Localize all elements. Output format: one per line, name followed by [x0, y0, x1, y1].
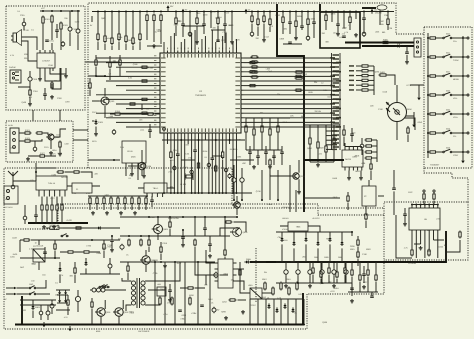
label L903	[302, 256, 306, 259]
main board border top	[88, 3, 424, 168]
resistor R71	[379, 71, 388, 76]
junction	[201, 192, 203, 194]
svg-text:D439: D439	[13, 253, 18, 256]
wire	[169, 284, 171, 298]
wire	[51, 212, 53, 225]
wire	[97, 42, 99, 51]
label 1N4148	[37, 244, 44, 247]
resistor R82	[89, 82, 91, 90]
ground	[332, 284, 336, 288]
label D969	[236, 138, 241, 141]
wire	[180, 136, 182, 194]
wire	[103, 205, 105, 210]
wire	[104, 88, 106, 96]
junction	[321, 282, 323, 284]
wire	[59, 149, 61, 153]
label R628	[326, 238, 331, 241]
svg-text:D146: D146	[383, 91, 388, 94]
pin bottom 2	[170, 128, 171, 135]
capacitor C26 electrolytic	[173, 165, 176, 171]
resistor R61	[333, 137, 335, 146]
terminal	[433, 190, 435, 192]
wire	[132, 12, 134, 39]
wire	[119, 55, 121, 76]
wire	[244, 80, 337, 82]
svg-text:680: 680	[70, 275, 73, 278]
svg-text:103: 103	[31, 279, 34, 282]
resistor R73	[343, 129, 345, 137]
label AN1	[446, 52, 451, 55]
capacitor C74 electrolytic	[240, 177, 244, 184]
wire	[77, 11, 79, 50]
label Q613	[302, 73, 307, 76]
power isolation dashed line	[255, 248, 257, 302]
transistor Q1	[46, 134, 60, 140]
resistor R62	[269, 159, 271, 167]
wire	[356, 79, 361, 81]
label 10U	[333, 32, 337, 35]
junction	[197, 261, 199, 263]
pin right 3	[235, 71, 243, 72]
wire	[310, 161, 334, 163]
pin left 6	[154, 83, 166, 86]
junction	[215, 192, 217, 194]
junction	[111, 235, 113, 237]
label R613	[130, 312, 135, 315]
resistor R32	[387, 18, 389, 27]
resistor R56	[269, 128, 271, 137]
pin (ladder)	[333, 146, 340, 147]
pin	[361, 147, 363, 151]
junction	[462, 132, 464, 134]
resistor R131	[288, 287, 290, 296]
label D246	[438, 246, 443, 249]
wire	[244, 108, 337, 110]
wire	[462, 36, 464, 158]
wire	[244, 112, 331, 114]
pin	[44, 68, 46, 71]
svg-text:100U: 100U	[311, 18, 316, 21]
main border right staircase + IF strip	[4, 168, 468, 229]
svg-text:472: 472	[328, 280, 331, 283]
junction	[91, 239, 93, 241]
svg-text:220: 220	[322, 32, 325, 35]
pin bottom 7	[188, 128, 189, 135]
svg-text:D907: D907	[314, 256, 319, 259]
wire	[67, 185, 100, 187]
IC U8 EEPROM 24C08	[342, 150, 363, 167]
ground	[42, 322, 46, 327]
pin (ladder)	[333, 58, 340, 59]
pin	[151, 193, 153, 197]
wire	[304, 159, 344, 161]
label C518	[48, 64, 53, 67]
wire	[195, 262, 210, 275]
junction	[427, 94, 429, 96]
wire	[349, 24, 351, 30]
label 330	[315, 110, 318, 113]
terminal	[467, 75, 469, 77]
resistor R24	[257, 18, 259, 27]
junction	[194, 216, 196, 218]
svg-text:PC817: PC817	[250, 304, 256, 307]
ground	[241, 310, 245, 314]
junction	[197, 324, 199, 326]
wire	[126, 126, 158, 128]
svg-text:REM: REM	[407, 108, 412, 111]
junction	[427, 56, 429, 58]
label 220	[24, 57, 27, 60]
wire	[261, 118, 263, 126]
wire	[404, 208, 406, 222]
wire	[249, 146, 251, 165]
label Q373	[221, 39, 226, 42]
label 1K	[121, 313, 124, 316]
wire	[301, 12, 303, 27]
resistor R96	[138, 197, 140, 206]
svg-text:Q304: Q304	[320, 282, 325, 285]
resistor R23	[251, 15, 253, 24]
label D542	[230, 148, 235, 151]
svg-text:D433: D433	[12, 237, 17, 240]
label 100U	[52, 149, 57, 152]
label 100/16V	[282, 217, 289, 220]
svg-text:C113: C113	[264, 35, 268, 38]
wire	[253, 137, 255, 151]
svg-text:C790: C790	[86, 244, 91, 247]
svg-text:C542: C542	[268, 70, 273, 73]
junction	[211, 192, 213, 194]
wire	[356, 70, 361, 72]
wire	[36, 168, 92, 178]
svg-text:R653: R653	[355, 170, 360, 173]
wire	[39, 240, 60, 270]
wire	[244, 121, 331, 123]
pin right 5	[235, 81, 243, 82]
label 4.7K	[10, 54, 15, 57]
pin	[344, 147, 346, 151]
power flag 12V	[370, 9, 378, 14]
wire	[56, 290, 70, 310]
wire	[289, 165, 291, 212]
wire	[139, 42, 141, 51]
capacitor C20	[288, 42, 292, 43]
wire	[109, 289, 126, 291]
wire	[191, 33, 193, 51]
label VCC	[41, 7, 46, 10]
wire	[204, 36, 206, 51]
label R527	[157, 30, 162, 33]
label R922	[366, 248, 371, 251]
junction	[95, 75, 97, 77]
connector J1 AV	[8, 124, 19, 153]
junction	[180, 192, 182, 194]
junction	[118, 11, 120, 13]
wire	[50, 140, 52, 149]
label R908 1K/2W	[168, 217, 179, 220]
resistor R97	[145, 197, 147, 206]
ground	[94, 132, 98, 136]
wire	[51, 197, 53, 206]
label D213	[222, 300, 227, 303]
wire	[177, 155, 179, 193]
wire	[22, 37, 38, 50]
pin top	[415, 205, 417, 209]
label 680	[54, 80, 57, 83]
wire	[124, 196, 126, 198]
resistor R55	[261, 125, 263, 134]
label 2W	[226, 12, 229, 15]
svg-text:103: 103	[197, 12, 200, 15]
wire	[125, 12, 127, 37]
capacitor C33	[272, 156, 276, 157]
label 22K	[314, 81, 318, 84]
svg-text:R613: R613	[130, 312, 135, 315]
capacitor C7	[181, 24, 185, 25]
junction	[303, 57, 305, 59]
wire	[289, 12, 291, 23]
capacitor C36	[392, 188, 396, 189]
label 22/50V	[282, 239, 288, 242]
label R447	[177, 262, 182, 265]
label L568	[361, 162, 365, 165]
svg-text:L568: L568	[361, 162, 365, 165]
resistor R88	[147, 113, 155, 115]
wire	[35, 163, 37, 181]
wire	[239, 262, 241, 285]
svg-text:2W: 2W	[264, 271, 267, 274]
svg-text:C113: C113	[92, 111, 96, 114]
wire	[331, 12, 333, 23]
junction	[54, 257, 56, 259]
junction	[257, 11, 259, 13]
svg-text:2W: 2W	[226, 12, 229, 15]
AV jack section border	[6, 121, 73, 162]
label C113	[264, 35, 268, 38]
junction	[146, 11, 148, 13]
junction	[235, 192, 237, 194]
capacitor C72	[43, 94, 47, 95]
wire	[23, 18, 25, 30]
bottom staircase border	[4, 215, 384, 329]
svg-text:D891: D891	[352, 156, 357, 159]
junction	[351, 231, 353, 233]
resistor R115	[74, 267, 76, 275]
label R471	[51, 153, 56, 156]
svg-text:D213: D213	[222, 300, 227, 303]
wire	[110, 196, 112, 198]
wire	[326, 130, 332, 132]
resistor R85	[119, 59, 121, 67]
label C318	[33, 90, 38, 93]
wire	[326, 139, 332, 141]
label 10U	[56, 133, 60, 136]
wire	[345, 143, 362, 147]
junction	[343, 11, 345, 13]
resistor R72	[407, 127, 409, 135]
capacitor C40 electrolytic	[112, 129, 116, 135]
label 103	[204, 283, 207, 286]
svg-text:470/16V: 470/16V	[282, 228, 289, 231]
svg-text:+5.0V: +5.0V	[66, 219, 72, 222]
junction	[225, 192, 227, 194]
label 0.1	[205, 156, 208, 159]
pin	[215, 280, 219, 282]
svg-text:L586: L586	[109, 115, 113, 118]
resistor R42	[170, 151, 172, 160]
label AN2	[446, 33, 451, 36]
wire	[153, 22, 155, 42]
wire	[18, 71, 30, 87]
wire	[301, 27, 303, 30]
resistor R60	[325, 145, 327, 154]
pin right 9	[235, 99, 243, 100]
resistor R64	[370, 163, 372, 171]
pin (ladder)	[333, 106, 340, 107]
ground	[224, 316, 228, 320]
wire	[96, 57, 158, 59]
label 22K	[427, 229, 431, 232]
pin bottom	[424, 230, 426, 234]
capacitor C8	[202, 24, 206, 25]
label R496	[332, 177, 337, 180]
label C121	[44, 146, 49, 149]
switch S3	[98, 285, 106, 288]
capacitor C42	[34, 215, 38, 216]
power section top border	[58, 207, 384, 209]
label D976	[333, 196, 338, 199]
wire	[77, 290, 79, 312]
label 100	[352, 132, 355, 135]
label D284	[282, 27, 287, 30]
wire	[41, 197, 43, 206]
module U5 (video block)	[122, 141, 146, 163]
resistor R111	[357, 239, 359, 247]
svg-text:R496: R496	[332, 177, 337, 180]
wire	[270, 168, 293, 176]
junction	[182, 11, 184, 13]
wire	[111, 236, 113, 248]
wire	[320, 279, 322, 283]
resistor R80	[429, 132, 438, 134]
ground	[284, 284, 288, 288]
wire	[325, 12, 327, 16]
wire	[370, 84, 375, 86]
wire	[89, 205, 91, 210]
svg-text:103: 103	[139, 118, 142, 121]
svg-text:C342: C342	[282, 121, 287, 124]
label 10K	[381, 23, 385, 26]
label R522	[153, 259, 158, 262]
label 472	[29, 96, 32, 99]
svg-text:220: 220	[370, 104, 373, 107]
svg-text:C774: C774	[102, 247, 107, 250]
wire	[257, 150, 259, 165]
wire	[96, 75, 158, 77]
capacitor C59	[168, 290, 172, 291]
wire	[317, 125, 319, 142]
wire	[211, 159, 213, 193]
svg-text:C365: C365	[149, 67, 154, 70]
svg-text:R922: R922	[366, 248, 371, 251]
pin bottom 14	[212, 128, 213, 135]
label DEG	[20, 266, 25, 269]
wire	[154, 262, 156, 325]
wire	[387, 26, 389, 30]
wire	[85, 61, 120, 63]
capacitor C41	[150, 200, 154, 201]
optocoupler U901 PC817	[248, 284, 262, 299]
capacitor C60	[403, 214, 407, 215]
wire	[373, 157, 377, 159]
wire	[222, 136, 224, 153]
junction	[209, 324, 211, 326]
wire	[297, 262, 299, 283]
svg-text:L623: L623	[266, 67, 270, 70]
wire	[464, 113, 467, 115]
capacitor C29 electrolytic	[224, 167, 227, 173]
svg-text:472: 472	[270, 25, 273, 28]
junction	[377, 42, 379, 44]
wire	[88, 195, 148, 197]
pin (ladder)	[333, 98, 340, 99]
label Q758	[256, 190, 261, 193]
wire	[147, 45, 162, 47]
capacitor C45 electrolytic	[46, 310, 50, 316]
capacitor C15 electrolytic	[188, 31, 192, 37]
wire	[362, 45, 414, 47]
pin	[38, 190, 40, 197]
pin	[52, 68, 54, 71]
resistor R103	[56, 204, 58, 212]
ground	[168, 298, 172, 302]
ceramic filter Z2	[362, 186, 376, 206]
label R184	[203, 150, 208, 153]
label D935	[308, 91, 313, 94]
wire	[104, 106, 106, 118]
label 220	[95, 172, 98, 175]
svg-text:22/50V: 22/50V	[282, 239, 288, 242]
ground	[417, 95, 421, 100]
capacitor C17 electrolytic	[306, 35, 310, 41]
junction	[218, 192, 220, 194]
capacitor C3	[45, 39, 55, 42]
capacitor C55	[350, 288, 354, 289]
resistor R8	[59, 141, 61, 149]
wire	[344, 275, 346, 283]
wire	[201, 39, 203, 51]
resistor R132	[296, 282, 298, 291]
wire	[42, 25, 44, 51]
wire	[295, 12, 297, 22]
capacitor C16 electrolytic	[250, 31, 254, 37]
svg-text:R131: R131	[92, 140, 97, 143]
pin top 13	[208, 48, 209, 58]
wire	[285, 262, 287, 283]
capacitor C4 electrolytic	[61, 41, 65, 47]
wire	[120, 261, 215, 263]
label C700	[203, 13, 208, 16]
capacitor C53 electrolytic	[332, 269, 336, 276]
svg-text:C844: C844	[278, 236, 283, 239]
wire	[295, 28, 297, 40]
junction	[180, 139, 182, 141]
capacitor C13	[336, 24, 340, 25]
junction	[405, 45, 407, 47]
wire	[166, 136, 168, 145]
label SW POWER	[138, 330, 150, 333]
wire	[145, 196, 147, 198]
